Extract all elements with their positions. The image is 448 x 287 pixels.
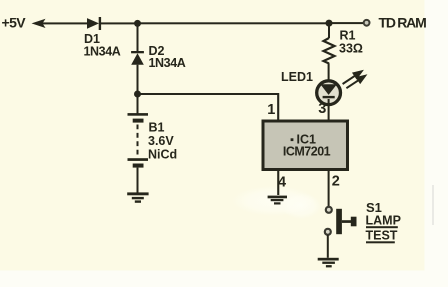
diode D1	[84, 17, 121, 59]
wire node C to battery B1	[137, 94, 139, 114]
node A junction	[134, 20, 141, 27]
svg-text:LED1: LED1	[281, 70, 313, 84]
switch S1 contact top	[326, 207, 332, 213]
node B junction	[326, 20, 333, 27]
svg-text:NiCd: NiCd	[148, 148, 177, 162]
wire D2 to node C	[137, 65, 139, 94]
svg-text:3.6V: 3.6V	[148, 134, 174, 148]
wire node B to R1	[328, 23, 330, 38]
diode D2	[131, 44, 186, 70]
wire node A down to D2	[137, 23, 139, 51]
wire switch S1 to ground	[327, 235, 329, 258]
wire node C to IC1 pin 1	[138, 94, 279, 121]
wire top rail left arrow	[32, 19, 89, 28]
switch S1 contact bottom	[325, 229, 331, 235]
svg-text:+5V: +5V	[2, 14, 27, 30]
LED LED1	[281, 70, 341, 104]
svg-text:3: 3	[318, 101, 326, 117]
ground (battery)	[127, 192, 148, 202]
wire battery B1 to ground	[137, 168, 139, 194]
svg-text:1N34A: 1N34A	[149, 56, 186, 70]
svg-text:S1: S1	[366, 200, 382, 215]
svg-text:1: 1	[267, 102, 275, 118]
svg-text:ICM7201: ICM7201	[283, 145, 331, 159]
wire LED1 to IC1 pin 3	[328, 99, 330, 121]
LED light arrows	[343, 71, 365, 88]
wire IC1 pin 2 to switch S1	[328, 171, 330, 207]
ground (switch S1)	[318, 258, 339, 268]
ground (IC1 pin 4)	[268, 196, 287, 205]
resistor R1	[324, 29, 363, 64]
svg-text:LAMP: LAMP	[366, 214, 401, 228]
wire node A to node B	[138, 22, 330, 24]
svg-text:33Ω: 33Ω	[339, 41, 363, 55]
svg-text:4: 4	[278, 174, 286, 190]
node C junction	[134, 91, 141, 98]
wire R1 to LED1	[328, 63, 330, 80]
wire D1 to node A	[101, 22, 138, 24]
svg-text:1N34A: 1N34A	[84, 45, 121, 59]
svg-text:B1: B1	[149, 120, 165, 134]
svg-text:TEST: TEST	[366, 229, 398, 243]
switch S1 pushbutton	[336, 200, 401, 244]
svg-text:TDRAM: TDRAM	[379, 14, 427, 30]
svg-text:2: 2	[332, 174, 340, 190]
battery B1	[128, 113, 178, 168]
wire IC1 pin 4 to ground	[277, 171, 279, 196]
wire node B to TD RAM terminal	[329, 22, 363, 24]
IC U1: IC1 ICM7201	[263, 121, 348, 170]
terminal TD RAM	[364, 20, 370, 26]
